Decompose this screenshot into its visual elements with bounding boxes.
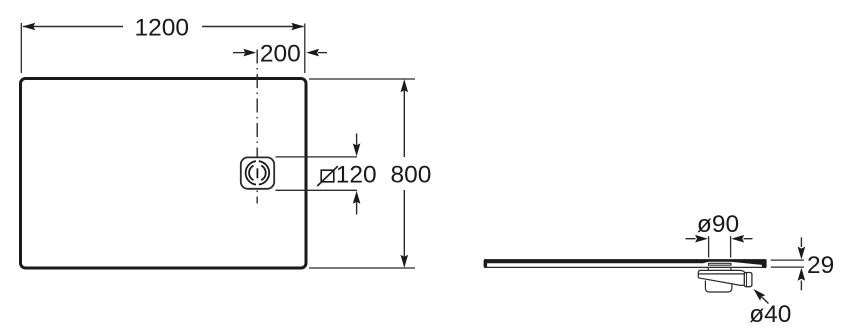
trap cup bbox=[705, 281, 732, 293]
dimension 29 arrows bbox=[800, 237, 802, 247]
svg-text:1200: 1200 bbox=[135, 14, 190, 41]
dimension 200 arrows bbox=[233, 52, 245, 54]
side view: top edge band and right end cap (filled) bbox=[484, 259, 767, 268]
svg-text:ø90: ø90 bbox=[697, 211, 739, 238]
svg-text:ø40: ø40 bbox=[749, 301, 791, 328]
centerline of drain (dash-dot) bbox=[256, 50, 258, 204]
drain cover (rounded square) bbox=[241, 157, 274, 188]
drain inner circle arcs bbox=[261, 166, 265, 181]
svg-text:200: 200 bbox=[260, 41, 301, 68]
square-drain symbol bbox=[321, 170, 334, 182]
svg-text:29: 29 bbox=[807, 252, 834, 279]
extension lines (800) bbox=[309, 78, 415, 80]
extension line left (1200) bbox=[20, 23, 22, 73]
side view: tray top surface line bbox=[484, 259, 767, 261]
dimension 800 arrows bbox=[401, 79, 409, 92]
trap body outline bbox=[698, 270, 745, 277]
drain size arrows (120) bbox=[356, 134, 358, 147]
svg-text:800: 800 bbox=[391, 162, 432, 189]
side view: tray bottom line bbox=[484, 266, 764, 268]
tray outline (plan view) bbox=[21, 79, 307, 269]
dimension o90 arrows bbox=[686, 238, 696, 240]
svg-text:120: 120 bbox=[336, 162, 377, 189]
dimension 1200 arrows bbox=[22, 23, 35, 31]
drain size extension lines bbox=[276, 156, 358, 158]
trap body bottom slant bbox=[698, 278, 744, 286]
o40 leader arrow bbox=[762, 297, 769, 304]
dimension 800 line bbox=[403, 81, 405, 157]
dimension 29 extension lines bbox=[771, 259, 804, 261]
trap neck ticks bbox=[707, 268, 709, 270]
extension line right (1200/200) bbox=[304, 24, 306, 74]
side view: drain grate slot bbox=[709, 263, 732, 265]
dimension o90 extension lines bbox=[708, 236, 710, 257]
dimension 1200 line bbox=[23, 26, 123, 28]
side view: left end cap bbox=[484, 260, 488, 268]
drain center tick bbox=[256, 168, 258, 178]
trap body seam bbox=[698, 273, 744, 275]
drain outer circle arcs bbox=[259, 161, 269, 184]
trap outlet stub bbox=[744, 273, 752, 287]
